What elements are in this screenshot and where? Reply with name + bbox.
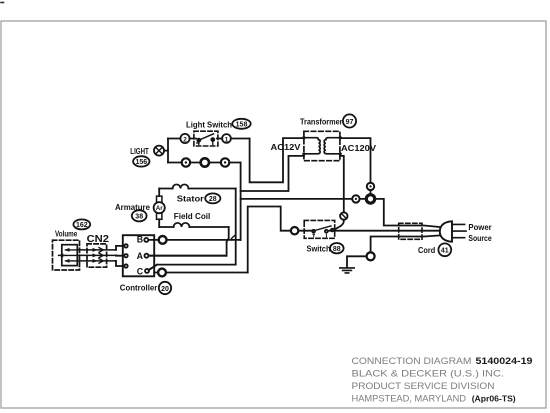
ring terminal switch left bbox=[291, 227, 298, 234]
controller pin circles left bbox=[124, 244, 127, 247]
splice terminal a bbox=[182, 158, 190, 166]
wires CN2 to controller pins bbox=[116, 246, 124, 266]
ring terminal C bbox=[158, 269, 166, 277]
ring terminal R lower bbox=[352, 195, 359, 202]
callout 158 bbox=[232, 119, 250, 129]
wire C lower with ring bbox=[154, 272, 248, 274]
splice terminal S bbox=[340, 212, 347, 219]
wire C pin diagonal bbox=[149, 265, 157, 270]
motor loop top stator wire bbox=[159, 188, 236, 190]
svg-text:5140024-19: 5140024-19 bbox=[476, 355, 533, 366]
motor loop right vertical to C wire bbox=[149, 189, 236, 271]
svg-text:Stator: Stator bbox=[177, 193, 205, 203]
light switch 158 dashed box bbox=[194, 131, 218, 146]
wire long horizontal to junction bbox=[241, 198, 367, 200]
wire junction to cord top bbox=[375, 199, 442, 227]
wire ground tap cord bottom bbox=[371, 235, 442, 252]
svg-text:Volume: Volume bbox=[55, 229, 78, 238]
wire A from pin bbox=[149, 255, 227, 257]
wire to ground symbol bbox=[347, 256, 367, 267]
ring terminal ground bbox=[367, 252, 375, 260]
svg-text:88: 88 bbox=[333, 246, 341, 253]
wire B to loop junction bbox=[148, 239, 240, 241]
svg-text:C: C bbox=[137, 267, 144, 277]
splice terminal b bbox=[201, 158, 209, 166]
svg-text:20: 20 bbox=[161, 286, 169, 293]
svg-text:156: 156 bbox=[135, 159, 147, 166]
wire transformer secondary bottom down bbox=[334, 156, 344, 230]
callout 38 bbox=[132, 210, 147, 221]
svg-text:Light Switch: Light Switch bbox=[186, 120, 232, 130]
svg-text:162: 162 bbox=[76, 222, 88, 229]
motor loop bottom field wire bbox=[159, 226, 229, 228]
ring terminal B bbox=[159, 236, 167, 244]
svg-text:41: 41 bbox=[441, 248, 449, 255]
svg-text:Source: Source bbox=[468, 233, 492, 243]
callout 20 bbox=[159, 282, 171, 294]
wire transformer secondary top to right bbox=[340, 138, 371, 195]
svg-text:Field Coil: Field Coil bbox=[174, 211, 211, 221]
field coil bbox=[174, 223, 190, 227]
volume wiper arrows bbox=[58, 248, 77, 263]
footer title block bbox=[352, 355, 533, 404]
svg-text:Transformer: Transformer bbox=[300, 116, 343, 126]
junction bullseye bbox=[366, 195, 374, 203]
ground symbol bbox=[340, 268, 354, 273]
svg-text:HAMPSTEAD, MARYLAND: HAMPSTEAD, MARYLAND bbox=[352, 394, 467, 404]
transformer windings bbox=[302, 136, 342, 155]
controller 20 box bbox=[123, 235, 154, 276]
svg-text:97: 97 bbox=[346, 119, 354, 126]
cord 41 dashed box bbox=[399, 223, 422, 239]
callout 97 bbox=[343, 114, 356, 127]
svg-text:PRODUCT SERVICE DIVISION: PRODUCT SERVICE DIVISION bbox=[352, 381, 495, 391]
callout 41 bbox=[438, 243, 451, 256]
svg-text:AC12V: AC12V bbox=[271, 142, 301, 152]
svg-text:B: B bbox=[137, 235, 143, 245]
svg-text:Controller: Controller bbox=[120, 282, 158, 292]
volume body bbox=[62, 245, 78, 266]
svg-text:1: 1 bbox=[225, 136, 229, 143]
wire switch right to cord middle bbox=[329, 230, 441, 232]
lamp LIGHT 156 bbox=[154, 146, 168, 156]
terminal 1 bbox=[222, 134, 231, 143]
terminal 2 bbox=[180, 134, 189, 143]
svg-text:(Apr06-TS): (Apr06-TS) bbox=[472, 394, 516, 404]
ring terminal R upper bbox=[367, 183, 374, 190]
svg-text:2: 2 bbox=[183, 136, 187, 143]
controller pin circles right bbox=[144, 238, 148, 242]
svg-text:Power: Power bbox=[468, 222, 492, 232]
wire snake to switch left bbox=[248, 207, 314, 273]
wire lamp branch vertical bbox=[167, 139, 169, 163]
splice terminal c bbox=[221, 158, 229, 166]
callout 156 bbox=[133, 156, 149, 166]
CN2 connector arrows bbox=[77, 248, 116, 264]
callout 28 bbox=[205, 193, 220, 203]
CN2 dashed box bbox=[87, 244, 107, 267]
svg-text:28: 28 bbox=[209, 196, 217, 203]
armature Ar bbox=[154, 189, 165, 228]
light switch contacts and lever bbox=[197, 134, 215, 145]
svg-text:LIGHT: LIGHT bbox=[130, 147, 149, 156]
svg-text:Switch: Switch bbox=[307, 244, 331, 254]
callout 88 bbox=[330, 243, 344, 253]
wire upper light rail bbox=[168, 138, 250, 140]
plug power source bbox=[440, 221, 466, 241]
svg-text:Armature: Armature bbox=[115, 202, 150, 212]
volume 162 dashed box bbox=[53, 240, 80, 270]
wire lower light rail bbox=[168, 162, 241, 164]
wire field bottom corner down to A with jog bbox=[149, 227, 229, 256]
stator coil bbox=[173, 184, 189, 188]
power switch 88 dashed box bbox=[304, 220, 335, 238]
wire transformer AC12V bottom pin bbox=[241, 156, 304, 191]
callout 162 bbox=[73, 219, 90, 229]
svg-text:38: 38 bbox=[135, 214, 143, 221]
svg-text:CN2: CN2 bbox=[87, 234, 110, 245]
transformer 97 dashed box bbox=[304, 131, 340, 160]
svg-text:BLACK & DECKER (U.S.) INC.: BLACK & DECKER (U.S.) INC. bbox=[352, 369, 505, 379]
wire lower rail vertical long bbox=[240, 163, 242, 241]
power switch contacts and lever bbox=[312, 226, 333, 237]
wire upper rail to transformer primary top bbox=[250, 138, 304, 182]
svg-text:A: A bbox=[137, 251, 144, 261]
svg-text:CONNECTION DIAGRAM: CONNECTION DIAGRAM bbox=[352, 356, 472, 366]
svg-text:Cord: Cord bbox=[418, 245, 435, 255]
svg-text:158: 158 bbox=[236, 122, 248, 129]
svg-text:Ar: Ar bbox=[156, 205, 163, 212]
